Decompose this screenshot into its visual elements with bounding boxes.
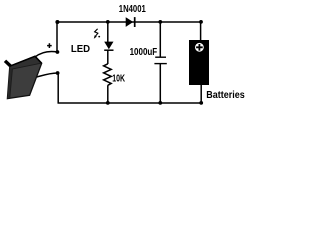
svg-text:Batteries: Batteries <box>206 90 245 101</box>
svg-text:10K: 10K <box>112 73 125 84</box>
svg-text:LED: LED <box>71 44 90 55</box>
svg-text:1000uF: 1000uF <box>130 47 158 58</box>
svg-text:1N4001: 1N4001 <box>119 4 146 15</box>
